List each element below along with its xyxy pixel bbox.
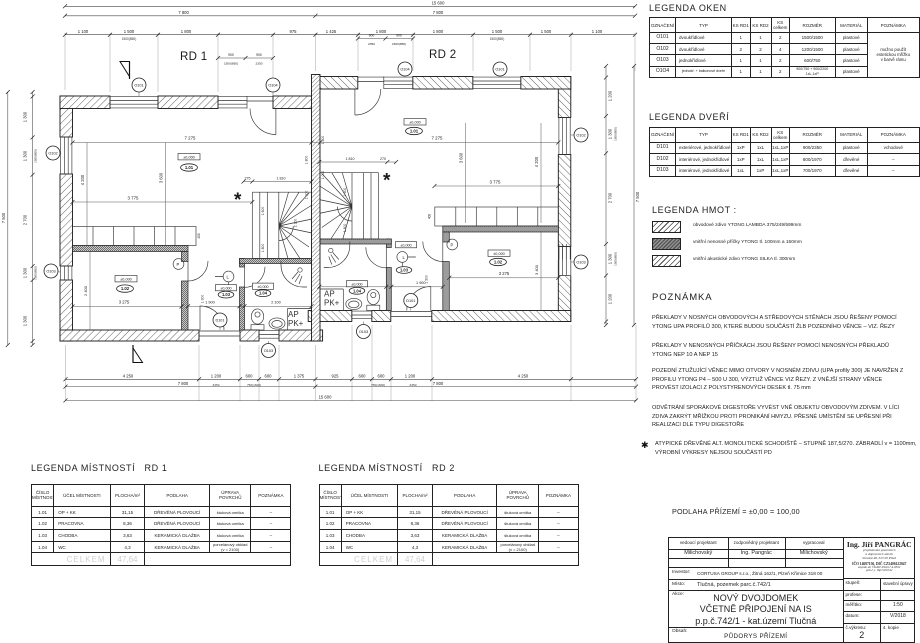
svg-text:750(1600): 750(1600) [247, 383, 261, 387]
svg-text:AP: AP [288, 310, 299, 319]
svg-text:400: 400 [428, 214, 432, 220]
partition between 1.01 and 1.02 [73, 246, 189, 252]
svg-text:1 425: 1 425 [326, 29, 337, 34]
door D102 to room 1.02 [188, 261, 208, 281]
svg-text:1 300: 1 300 [23, 150, 28, 161]
svg-text:±0,000: ±0,000 [351, 282, 362, 286]
svg-text:1 800: 1 800 [181, 29, 192, 34]
svg-text:4 250: 4 250 [518, 374, 529, 379]
room label 1.01 RD1 [178, 154, 200, 160]
svg-text:7 800: 7 800 [178, 10, 189, 15]
legend materials title [652, 205, 737, 215]
svg-text:275: 275 [245, 177, 251, 181]
room label 1.04 RD2 [347, 281, 368, 287]
svg-text:1 200: 1 200 [405, 374, 416, 379]
room label 1.02 RD2 [488, 250, 510, 256]
left dim column detail [32, 92, 34, 345]
svg-text:3 400: 3 400 [534, 264, 539, 275]
room legend table RD 1 [31, 484, 291, 566]
wall left pier 3 [60, 280, 73, 341]
material swatch 1 obvodove zdivo [652, 221, 681, 234]
toilet WC [251, 309, 264, 330]
partition chodba left upper stub [182, 252, 189, 262]
svg-text:600: 600 [359, 374, 367, 379]
svg-text:RD 2: RD 2 [429, 49, 456, 61]
svg-text:1500(850): 1500(850) [490, 37, 505, 41]
stair dim RD2 [319, 161, 396, 163]
svg-text:1 000: 1 000 [321, 171, 325, 180]
svg-text:1 800: 1 800 [433, 29, 444, 34]
room label 1.03 RD2 [396, 242, 417, 248]
marker O101 [132, 78, 146, 92]
top secondary dims RD1 O104 [218, 57, 273, 59]
svg-text:1.03: 1.03 [222, 292, 231, 297]
note paragraph [652, 367, 908, 393]
extension lines top [64, 33, 66, 90]
svg-text:3 275: 3 275 [119, 300, 130, 305]
svg-text:7 500: 7 500 [1, 212, 6, 223]
marker O102 [574, 128, 588, 142]
bottom dim row 15600 [66, 399, 637, 401]
wardrobe room 1.01 [73, 227, 197, 246]
svg-text:1 200: 1 200 [608, 293, 613, 304]
right dim column detail [605, 66, 607, 325]
svg-text:1 810: 1 810 [346, 157, 355, 161]
svg-text:975: 975 [290, 29, 298, 34]
interior dims RD1 [73, 201, 253, 203]
svg-text:1 810: 1 810 [277, 177, 286, 181]
svg-text:O103: O103 [46, 270, 55, 274]
note paragraph [652, 404, 908, 430]
partition chodba left lower [182, 281, 189, 330]
svg-text:O102: O102 [48, 152, 57, 156]
svg-text:7 500: 7 500 [635, 191, 640, 202]
interior dim line 7275 [73, 142, 559, 144]
svg-text:7 275: 7 275 [432, 136, 444, 141]
marker O103 [44, 264, 58, 278]
svg-text:1 100: 1 100 [592, 29, 603, 34]
section cut mark top [120, 62, 130, 77]
wall top pier 3 [273, 96, 312, 109]
partition WC left upper stub [240, 259, 245, 268]
svg-text:*: * [234, 190, 242, 211]
svg-text:1 800: 1 800 [321, 136, 325, 145]
svg-text:7 800: 7 800 [178, 381, 189, 386]
svg-text:P: P [451, 242, 454, 247]
svg-text:7 800: 7 800 [433, 381, 444, 386]
svg-text:1 300: 1 300 [23, 267, 28, 278]
marker D101 [213, 313, 227, 327]
svg-text:1 300: 1 300 [23, 315, 28, 326]
notes title [652, 292, 713, 303]
svg-text:1 900: 1 900 [205, 301, 215, 305]
window O101 top wall [110, 96, 158, 109]
svg-text:1.02: 1.02 [121, 286, 130, 291]
svg-text:750(1600): 750(1600) [371, 383, 385, 387]
window O103 left wall [60, 266, 73, 280]
svg-text:600: 600 [265, 374, 273, 379]
partition WC top [240, 259, 313, 264]
svg-text:PK+: PK+ [324, 299, 340, 308]
wall top pier 2 [158, 96, 218, 109]
svg-text:2 100: 2 100 [294, 219, 298, 228]
partition WC left lower [240, 287, 245, 330]
svg-text:1500(850): 1500(850) [34, 266, 38, 280]
wall top pier 1 [60, 96, 110, 109]
svg-text:1 500: 1 500 [492, 29, 503, 34]
room legend title RD 1 [31, 463, 167, 473]
bottom dim row 7800 [66, 386, 637, 388]
room legend table RD 2 [319, 484, 579, 566]
svg-text:D101: D101 [406, 299, 415, 303]
chodba WC dim line RD1 [188, 305, 312, 307]
svg-text:3 775: 3 775 [128, 195, 140, 200]
door D103 to WC 1.04 [245, 267, 266, 288]
svg-text:1 200: 1 200 [608, 90, 613, 101]
svg-text:1 600: 1 600 [261, 207, 265, 216]
svg-text:1.01: 1.01 [410, 129, 419, 134]
svg-text:1500(850): 1500(850) [122, 37, 137, 41]
wall left pier 2 [60, 174, 73, 266]
room label 1.02 RD1 [115, 276, 137, 282]
right dim column total [633, 66, 635, 325]
svg-text:1.03: 1.03 [400, 268, 409, 273]
chodba WC dim line RD2 [319, 286, 443, 288]
svg-text:7 275: 7 275 [185, 136, 197, 141]
svg-text:±0,000: ±0,000 [493, 252, 505, 256]
wall bottom pier 3 [279, 330, 323, 341]
svg-text:2 400: 2 400 [83, 285, 88, 296]
svg-text:L: L [227, 274, 230, 279]
svg-text:±0,000: ±0,000 [183, 155, 195, 159]
svg-text:3 600: 3 600 [458, 152, 463, 163]
room label 1.01 RD2 [404, 119, 426, 125]
wall left pier 1 [60, 96, 73, 137]
shower corner in WC [281, 261, 307, 287]
svg-text:15 600: 15 600 [432, 1, 445, 6]
svg-text:*: * [383, 171, 391, 192]
svg-text:3 275: 3 275 [499, 271, 510, 276]
svg-text:P: P [177, 262, 180, 267]
wall bottom pier 1 [60, 330, 199, 341]
top dim row total 15600 [65, 5, 635, 7]
marker circles layer [44, 62, 588, 363]
marker O104 [266, 78, 280, 92]
svg-text:7 800: 7 800 [433, 10, 444, 15]
marker D101 [404, 294, 418, 308]
svg-text:±0,000: ±0,000 [257, 285, 268, 289]
svg-text:O102: O102 [576, 134, 585, 138]
svg-text:400: 400 [197, 233, 201, 239]
material swatch 3 vnitrni akusticke zdivo [652, 255, 681, 268]
symbol circle P at partition [173, 259, 184, 270]
room legend title RD 2 [319, 463, 455, 473]
svg-text:2 700: 2 700 [23, 214, 28, 225]
svg-text:O104: O104 [268, 84, 277, 88]
window O103 RD2 right wall enlarged patch [558, 260, 572, 276]
svg-text:O104: O104 [400, 68, 409, 72]
svg-text:1.04: 1.04 [353, 288, 362, 293]
svg-text:600: 600 [378, 374, 386, 379]
svg-text:D101: D101 [215, 319, 224, 323]
window O103 bottom wall WC [259, 330, 279, 341]
wall bottom pier 2 [240, 330, 259, 341]
svg-text:1 600: 1 600 [343, 188, 347, 197]
svg-text:1 300: 1 300 [608, 128, 613, 139]
marker O103 [357, 325, 371, 339]
symbol circle L in chodba [215, 271, 234, 290]
svg-text:1 300: 1 300 [608, 253, 613, 264]
door O104 balcony door leaf and swing [247, 97, 276, 135]
svg-text:O101: O101 [495, 68, 504, 72]
note paragraph [652, 314, 908, 331]
svg-text:1 200: 1 200 [211, 374, 222, 379]
svg-text:1500(850): 1500(850) [224, 62, 238, 66]
svg-text:1 800: 1 800 [376, 29, 387, 34]
stair dim RD1 [244, 181, 312, 183]
window O102 left wall [60, 137, 73, 174]
svg-text:900: 900 [256, 53, 262, 57]
svg-text:2350: 2350 [368, 42, 375, 46]
extension lines bottom [65, 345, 67, 401]
svg-text:1 800: 1 800 [343, 224, 347, 233]
svg-text:1.01: 1.01 [185, 165, 194, 170]
svg-text:4 200: 4 200 [534, 156, 539, 167]
room label 1.03 RD1 [216, 285, 237, 291]
left dim column total [7, 92, 9, 345]
svg-text:±0,000: ±0,000 [120, 277, 132, 281]
legend doors table [649, 127, 920, 177]
RD2 mirrored geometry [308, 77, 571, 322]
svg-text:AP: AP [324, 290, 335, 299]
note star paragraph [641, 440, 649, 451]
title block [668, 537, 915, 643]
svg-text:3350: 3350 [410, 383, 417, 387]
svg-text:±0,000: ±0,000 [220, 286, 231, 290]
bottom dim row details [66, 378, 637, 380]
svg-text:900: 900 [369, 34, 375, 38]
svg-text:900: 900 [228, 53, 234, 57]
top secondary dims RD2 O104 [358, 38, 413, 40]
svg-text:270: 270 [380, 157, 386, 161]
party wall between RD1 and RD2 [312, 75, 321, 342]
svg-text:PK+: PK+ [288, 319, 304, 328]
washing machine boiler nook AP PK [288, 309, 313, 331]
svg-text:O101: O101 [134, 84, 143, 88]
svg-text:O103: O103 [359, 330, 368, 334]
svg-text:1 500: 1 500 [541, 29, 552, 34]
svg-text:3 600: 3 600 [159, 172, 164, 183]
svg-text:15 600: 15 600 [319, 395, 332, 400]
marker O103 [262, 344, 276, 358]
legend doors title [649, 112, 729, 122]
interior dims RD2 [435, 185, 559, 187]
svg-text:±0,000: ±0,000 [400, 243, 411, 247]
svg-text:O103: O103 [576, 261, 585, 265]
top dim row details [65, 34, 635, 36]
svg-text:925: 925 [332, 374, 340, 379]
svg-text:1.04: 1.04 [259, 291, 268, 296]
svg-text:3350: 3350 [213, 383, 220, 387]
svg-text:900: 900 [396, 34, 402, 38]
svg-text:3 775: 3 775 [490, 179, 502, 184]
svg-text:1 800: 1 800 [261, 244, 265, 253]
svg-text:1.02: 1.02 [494, 260, 503, 265]
svg-text:1 300: 1 300 [23, 111, 28, 122]
svg-text:1500(850): 1500(850) [614, 252, 618, 266]
marker O104 [398, 62, 412, 76]
section cut mark bottom [133, 348, 143, 363]
svg-text:RD 1: RD 1 [180, 51, 207, 63]
stair [252, 192, 312, 258]
room label 1.04 RD1 [253, 283, 274, 289]
material swatch 2 vnitrni nenosne pricky [652, 238, 681, 251]
top dim row 7800 7800 [65, 15, 635, 17]
marker O102 [46, 146, 60, 160]
svg-text:2350: 2350 [256, 62, 263, 66]
marker O101 [493, 62, 507, 76]
svg-text:O103: O103 [264, 349, 273, 353]
svg-text:600: 600 [246, 374, 254, 379]
door D101 entrance leaf and swing [199, 306, 240, 336]
svg-text:1 300: 1 300 [201, 295, 205, 304]
dimension chains layer [1, 1, 640, 403]
svg-text:1500(850): 1500(850) [614, 127, 618, 141]
svg-text:L: L [403, 255, 406, 260]
room labels layer [115, 49, 510, 328]
svg-text:1 300: 1 300 [424, 275, 428, 284]
svg-text:4 200: 4 200 [80, 174, 85, 185]
svg-text:1500(850): 1500(850) [34, 149, 38, 163]
svg-text:1 000: 1 000 [305, 191, 309, 200]
marker O103 [574, 255, 588, 269]
svg-text:2 700: 2 700 [608, 192, 613, 203]
note paragraph [652, 342, 908, 359]
legend windows title [649, 3, 727, 13]
window O104 window part [218, 96, 247, 109]
svg-text:±0,000: ±0,000 [409, 120, 421, 124]
svg-text:1 100: 1 100 [78, 29, 89, 34]
svg-text:1500(850): 1500(850) [392, 42, 406, 46]
svg-text:1 375: 1 375 [294, 374, 305, 379]
sink WC [269, 318, 285, 329]
svg-text:1 800: 1 800 [305, 156, 309, 165]
svg-text:2 100: 2 100 [271, 301, 281, 305]
floor level note [672, 507, 800, 516]
svg-text:4 250: 4 250 [123, 374, 134, 379]
legend windows table [649, 17, 920, 78]
svg-text:1 500: 1 500 [124, 29, 135, 34]
